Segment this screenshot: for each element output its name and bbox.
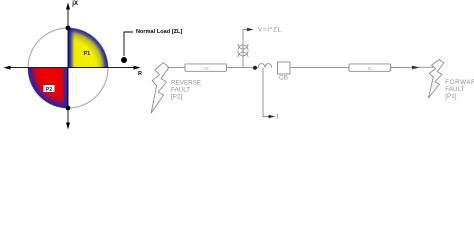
node dot circle top: [66, 26, 71, 31]
arrow I: [269, 115, 276, 119]
forward fault bolt: [429, 60, 445, 99]
svg-text:CB: CB: [279, 74, 288, 81]
horizontal axis R: [8, 67, 136, 69]
svg-text:V=I*ZL: V=I*ZL: [258, 27, 282, 34]
voltage transformer symbol: [238, 45, 248, 50]
arrow V: [247, 28, 254, 31]
svg-text:R: R: [138, 71, 142, 77]
source impedance ZS: [185, 64, 227, 71]
current transformer CT: [258, 64, 265, 68]
label P2: [44, 85, 55, 92]
svg-text:P1: P1: [84, 51, 91, 57]
quadrant P1 fill: [68, 28, 108, 68]
wire ZL to forward fault: [391, 66, 434, 68]
circuit breaker CB: [278, 62, 291, 74]
junction node: [253, 66, 257, 70]
line impedance ZL: [349, 64, 391, 71]
svg-text:ZL: ZL: [368, 65, 373, 70]
wire CB to ZL: [290, 67, 349, 69]
reverse fault bolt: [151, 63, 169, 113]
circle outline (impedance characteristic): [28, 28, 108, 108]
svg-text:Normal Load [ZL]: Normal Load [ZL]: [136, 29, 182, 35]
svg-text:I: I: [277, 114, 279, 121]
wire ZS to junction: [227, 67, 259, 69]
VT branch wire: [243, 30, 249, 68]
vertical axis jX: [67, 7, 69, 125]
svg-text:[P1]: [P1]: [445, 93, 456, 100]
node dot circle bottom: [66, 106, 71, 111]
quadrant P2 fill: [28, 68, 68, 108]
wire bolt to ZS: [168, 67, 186, 69]
arrow on wire: [412, 66, 420, 70]
CT lead wire down: [263, 68, 270, 117]
leader line to normal load label: [124, 32, 133, 56]
svg-text:jX: jX: [71, 0, 79, 7]
svg-text:P2: P2: [46, 87, 52, 93]
normal load point ZL: [121, 57, 127, 63]
svg-text:ZS: ZS: [203, 65, 208, 70]
svg-text:[P2]: [P2]: [171, 93, 182, 100]
